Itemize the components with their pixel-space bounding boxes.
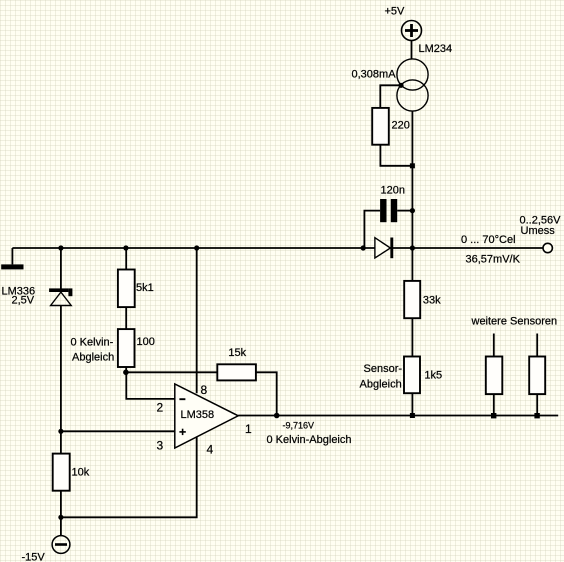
svg-text:Abgleich: Abgleich [360,379,402,391]
resistor R5 sensor [529,357,545,395]
resistor R6 5k1 [118,270,135,308]
resistor R3 1k5 [404,357,420,394]
wire [380,145,412,166]
junction [410,413,415,418]
wire [536,394,538,415]
reference LM336 plate [1,264,23,269]
wire [536,334,538,357]
svg-text:8: 8 [201,383,208,397]
junction [58,429,63,434]
wire [397,210,412,212]
wire [493,394,495,415]
svg-text:3: 3 [157,439,164,453]
svg-text:0 Kelvin-: 0 Kelvin- [71,337,114,349]
wire [256,372,277,415]
svg-text:2,5V: 2,5V [12,295,35,307]
svg-text:-9,716V: -9,716V [283,421,315,431]
svg-text:1k5: 1k5 [424,370,442,382]
svg-text:2: 2 [157,401,164,415]
svg-text:1: 1 [245,422,252,436]
svg-text:33k: 33k [423,295,441,307]
wire [411,111,413,281]
junction [58,515,63,520]
junction [194,245,199,250]
wire [60,491,62,518]
wire pin4 [61,437,197,517]
diode D1 [375,238,391,258]
wire [125,307,127,329]
resistor R9 10k [53,454,70,491]
junction [361,245,366,250]
capacitor C1 120n [380,199,386,222]
resistor R2 33k [404,281,420,318]
svg-text:weitere Sensoren: weitere Sensoren [471,316,558,328]
svg-text:LM358: LM358 [181,409,215,421]
wire [11,248,13,264]
resistor R8 15k [217,364,256,380]
junction [274,413,280,419]
wire [411,41,413,60]
power -15V [52,536,70,554]
svg-text:LM234: LM234 [419,43,453,55]
wire [60,248,62,290]
svg-text:+5V: +5V [385,6,406,18]
junction [491,413,496,418]
wire [126,372,175,399]
svg-text:5k1: 5k1 [136,282,154,294]
junction [410,163,415,168]
junction [410,208,415,213]
wire [60,306,62,432]
wire [411,318,413,356]
wire [364,211,380,248]
wire [125,248,127,270]
svg-text:15k: 15k [228,347,246,359]
resistor R7 100 [118,329,135,367]
svg-text:0,308mA: 0,308mA [352,69,397,81]
svg-text:0 Kelvin-Abgleich: 0 Kelvin-Abgleich [267,434,352,446]
wire [380,85,401,108]
junction [398,83,403,88]
svg-text:10k: 10k [72,467,90,479]
power +5V [402,21,422,41]
junction [534,413,539,418]
op-amp U1 LM358 [175,384,238,448]
svg-text:-15V: -15V [22,552,46,562]
wire [126,371,217,373]
wire pin3 [61,430,175,432]
wire [493,334,495,357]
main bus wire [12,247,543,249]
wire pin8 [196,248,198,393]
wire [125,367,127,372]
svg-text:100: 100 [137,336,155,348]
svg-text:36,57mV/K: 36,57mV/K [466,254,521,266]
junction [123,370,129,376]
current source U2 LM234 [397,59,428,90]
zener D2 LM336 [49,288,68,292]
svg-text:0 ... 70°Cel: 0 ... 70°Cel [461,234,516,246]
svg-text:Abgleich: Abgleich [72,352,114,364]
svg-text:Umess: Umess [521,225,556,237]
junction [123,245,128,250]
resistor R1 220 [372,108,389,145]
junction [410,245,415,250]
wire [60,517,62,535]
junction [58,245,63,250]
svg-text:4: 4 [207,443,214,457]
output bus wire [238,415,558,417]
svg-text:Sensor-: Sensor- [364,363,403,375]
terminal Umess [543,243,552,252]
wire [411,393,413,415]
svg-text:220: 220 [392,120,410,132]
wire [60,431,62,453]
svg-text:120n: 120n [381,185,405,197]
resistor R4 sensor [486,357,503,395]
